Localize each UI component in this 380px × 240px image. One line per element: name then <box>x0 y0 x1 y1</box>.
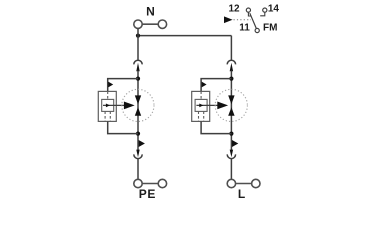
svg-text:12: 12 <box>228 3 240 14</box>
svg-text:N: N <box>146 5 155 19</box>
svg-text:L: L <box>238 187 245 201</box>
svg-text:14: 14 <box>268 3 280 14</box>
svg-text:11: 11 <box>239 23 250 34</box>
svg-text:FM: FM <box>263 23 277 34</box>
svg-text:PE: PE <box>139 187 156 201</box>
